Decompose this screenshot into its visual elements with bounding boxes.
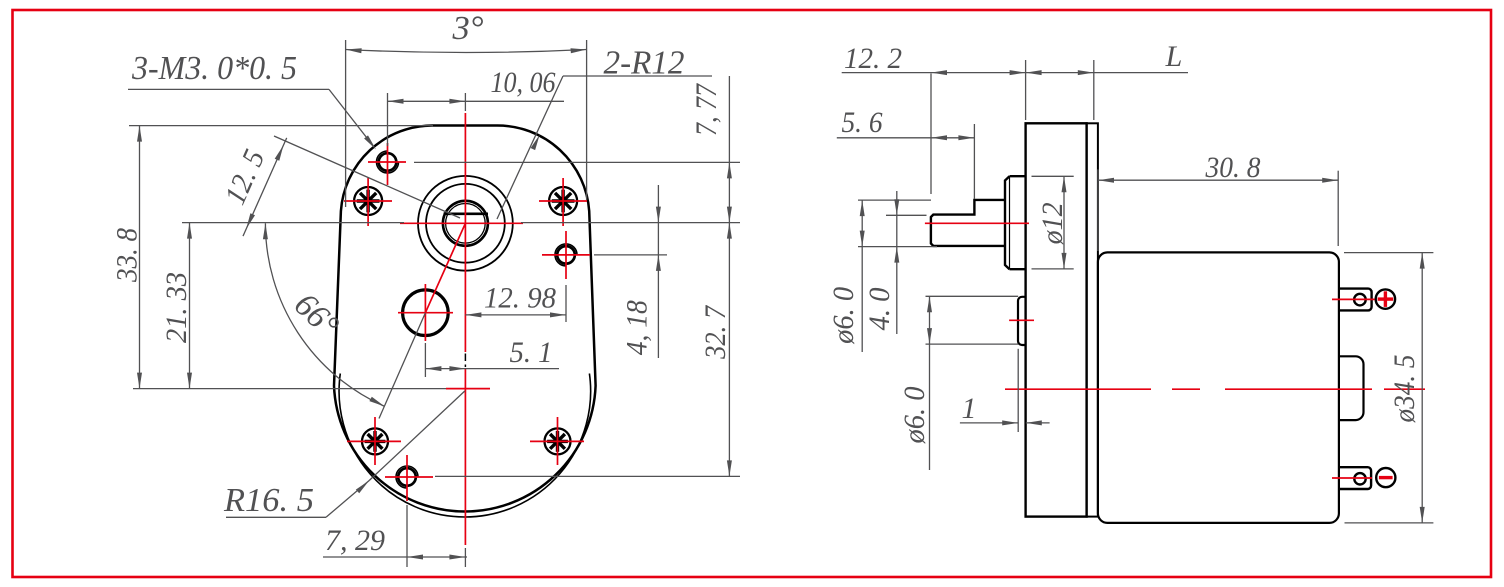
angular dimension 66deg arc (265, 223, 384, 406)
lower bearing nub (1018, 297, 1026, 345)
dimension 7,29 line (323, 556, 467, 558)
top-hole horizontal extension (414, 161, 740, 163)
dimension 12.98 line (465, 314, 566, 316)
svg-text:R16. 5: R16. 5 (223, 482, 314, 519)
negative terminal eyelet (1354, 473, 1365, 484)
dimension 10,06 line (388, 100, 565, 102)
svg-text:30. 8: 30. 8 (1205, 151, 1261, 184)
bottom-hole horizontal extension (435, 475, 740, 477)
dimension 5.1 line (425, 368, 559, 370)
main vertical centerline lower (464, 368, 466, 545)
main bearing outer circle (418, 176, 513, 271)
dimension ø6.0 nub lines (926, 295, 1019, 297)
right-middle hole circle (557, 246, 575, 264)
upper-right torx crosshair (539, 200, 587, 202)
svg-text:ø6. 0: ø6. 0 (827, 287, 860, 345)
svg-text:ø34. 5: ø34. 5 (1388, 355, 1421, 424)
main horizontal red crosshair (400, 222, 523, 224)
svg-text:3-M3. 0*0. 5: 3-M3. 0*0. 5 (131, 50, 297, 87)
bottom arc center red crosshair (446, 388, 490, 390)
lower-right torx crosshair (530, 440, 584, 442)
svg-text:4, 18: 4, 18 (621, 300, 654, 355)
leader 2-R12 (497, 76, 563, 219)
medium hole crosshair (398, 312, 453, 314)
dimension 4.0 line (896, 191, 898, 334)
lower-right torx screw (545, 428, 571, 454)
dimension ø12 lines (1032, 175, 1074, 177)
dimension 5.6 line (837, 137, 975, 139)
svg-text:21. 33: 21. 33 (160, 272, 193, 343)
plus symbol cross (1378, 297, 1394, 300)
bottom hole crosshair (385, 476, 433, 478)
output shaft circle (thick) (443, 201, 488, 246)
slanted construction line (274, 136, 460, 218)
dimension ø6.0 shaft lines (858, 199, 931, 201)
svg-text:5. 6: 5. 6 (842, 106, 883, 139)
main vertical centerline (464, 113, 466, 352)
svg-text:2-R12: 2-R12 (604, 45, 685, 82)
svg-text:L: L (1165, 40, 1183, 73)
motor axis red centerline (1005, 388, 1151, 390)
svg-text:1: 1 (962, 392, 977, 425)
dimension 12.5 line (243, 138, 287, 236)
svg-text:7, 29: 7, 29 (325, 524, 385, 557)
leader 3-M3.0*0.5 (128, 88, 329, 90)
negative terminal red tick (1332, 477, 1372, 479)
thin plate (1087, 123, 1098, 516)
centerline black dot (464, 365, 466, 368)
minus symbol bar (1379, 476, 1393, 479)
minus symbol circle (1376, 468, 1395, 487)
output shaft with flat (931, 200, 1005, 246)
right-middle hole thread arc (555, 244, 577, 266)
bottom hole thread arc (396, 466, 418, 488)
dimension 4,18 line (657, 185, 659, 358)
positive terminal eyelet (1354, 294, 1366, 306)
upper-right torx screw (549, 187, 577, 215)
inner rim arc at bottom (339, 374, 591, 517)
bottom reference line y=388.6 (133, 388, 446, 390)
positive terminal red tick (1332, 298, 1375, 300)
dimension 3deg lines (345, 40, 347, 207)
dimension 33.8 line (139, 126, 141, 389)
lower-left torx screw (362, 428, 388, 454)
dimension 30.8 line (1098, 179, 1338, 181)
svg-text:12. 2: 12. 2 (844, 42, 902, 75)
upper-left torx screw (354, 187, 382, 215)
svg-text:3°: 3° (451, 10, 483, 47)
motor body (1098, 252, 1339, 523)
bottom hole circle (398, 468, 416, 486)
diagonal extension line (379, 313, 425, 419)
svg-text:33. 8: 33. 8 (111, 228, 144, 283)
center horizontal extension right (521, 222, 740, 224)
top screw hole thread arc (377, 151, 399, 173)
right-middle-hole extension (594, 254, 667, 256)
top extension line (33.8) (129, 125, 433, 127)
svg-text:5. 1: 5. 1 (510, 336, 553, 369)
dimension ø34.5 lines (1344, 252, 1433, 254)
upper-left torx crosshair (344, 200, 392, 202)
right-middle hole crosshair (542, 254, 590, 256)
svg-text:10, 06: 10, 06 (491, 66, 556, 99)
gearbox plate (1026, 123, 1087, 516)
svg-text:32. 7: 32. 7 (699, 304, 732, 360)
svg-text:4. 0: 4. 0 (863, 288, 896, 331)
svg-text:12. 98: 12. 98 (484, 282, 556, 315)
red diagonal center to medium hole (425, 223, 465, 312)
svg-text:ø12: ø12 (1036, 202, 1069, 245)
nub red tick (1009, 319, 1034, 321)
lower-left torx crosshair (347, 440, 401, 442)
shaft D-flat chord (444, 213, 489, 216)
shaft axis red line (925, 222, 1029, 224)
output shaft inner circle (446, 204, 486, 244)
top screw hole circle (379, 153, 397, 171)
plus symbol circle (1376, 289, 1395, 308)
dimension 32.7 line (728, 223, 730, 477)
top screw hole crosshair (368, 161, 406, 163)
positive terminal tab (1339, 289, 1372, 311)
centerline black dash (464, 354, 466, 362)
dimension 12.2 and L lines (842, 72, 1188, 74)
medium hole (5.1 offset) (403, 290, 449, 336)
shaft collar (ø12 boss) (1005, 176, 1026, 269)
dimension 1 line (960, 422, 1018, 424)
svg-text:7, 77: 7, 77 (690, 82, 723, 136)
main bearing middle circle (426, 184, 505, 263)
center horizontal extension left (182, 222, 404, 224)
dimension 7,77 line (728, 76, 730, 223)
motor end bump (1339, 356, 1364, 420)
gearbox body outline (obround with R12 top corners, R16.5 bottom) (334, 125, 596, 511)
leader R16.5 (369, 391, 465, 481)
svg-text:ø6. 0: ø6. 0 (898, 387, 931, 445)
dimension 21.33 line (189, 223, 191, 389)
negative terminal tab (1339, 467, 1371, 489)
